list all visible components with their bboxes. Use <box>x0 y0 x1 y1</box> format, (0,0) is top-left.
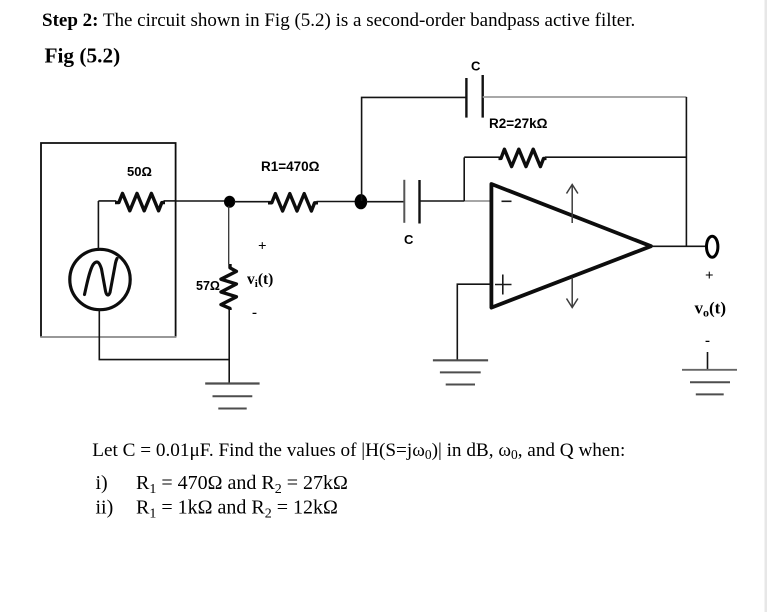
label minus input <box>502 200 512 202</box>
resistor R2 27kohm <box>464 156 500 158</box>
svg-text:R1 = 470Ω and R2 = 27kΩ: R1 = 470Ω and R2 = 27kΩ <box>136 472 348 497</box>
wire C2 to output node (gray) <box>483 96 687 98</box>
svg-text:R1=470Ω: R1=470Ω <box>261 159 320 174</box>
ground G2 <box>433 360 488 384</box>
svg-text:+: + <box>258 239 267 255</box>
wire source bottom return <box>99 310 229 360</box>
source box <box>41 143 176 337</box>
resistor 57ohm <box>221 264 236 310</box>
ground G1 <box>205 384 259 409</box>
wire feedback vertical to output <box>685 97 687 246</box>
node B <box>355 194 368 209</box>
capacitor C2 (feedback cap) <box>466 75 482 118</box>
wire source top to 50ohm <box>97 201 99 250</box>
wire node B to C1 <box>366 201 404 203</box>
wire vo to ground G3 <box>707 352 709 370</box>
svg-text:vi(t): vi(t) <box>247 271 273 290</box>
output terminal <box>707 236 718 257</box>
wire node A down to 57ohm <box>228 206 230 264</box>
wire box edge to node A <box>176 200 230 202</box>
svg-text:Step 2: The circuit shown in F: Step 2: The circuit shown in Fig (5.2) i… <box>42 10 635 31</box>
resistor R1 470ohm <box>268 194 318 211</box>
svg-text:57Ω: 57Ω <box>196 279 220 293</box>
power arrow down <box>567 278 578 308</box>
svg-text:ii): ii) <box>96 497 114 519</box>
svg-text:-: - <box>252 305 257 321</box>
svg-text:C: C <box>471 59 481 74</box>
svg-text:R1 = 1kΩ and R2 = 12kΩ: R1 = 1kΩ and R2 = 12kΩ <box>136 497 338 522</box>
svg-text:R2=27kΩ: R2=27kΩ <box>489 116 548 131</box>
wire output <box>651 245 707 247</box>
svg-text:C: C <box>404 232 414 247</box>
capacitor C1 (series input cap) <box>404 180 419 224</box>
svg-text:-: - <box>705 333 710 349</box>
resistor 50ohm <box>98 200 116 202</box>
wire noninverting input <box>457 284 491 360</box>
op-amp U1 <box>491 184 651 308</box>
power arrow up <box>567 185 578 224</box>
wire 57ohm to ground G1 <box>228 310 230 383</box>
wire node A to R1 <box>234 201 271 203</box>
wire C1 to inverting input <box>420 200 466 202</box>
svg-text:+: + <box>705 268 714 284</box>
ground G3 <box>682 370 737 395</box>
source VS <box>70 249 130 309</box>
svg-text:50Ω: 50Ω <box>127 164 152 179</box>
label plus input <box>495 275 512 295</box>
svg-text:vo(t): vo(t) <box>695 299 726 320</box>
svg-text:Let C = 0.01μF. Find the value: Let C = 0.01μF. Find the values of |H(S=… <box>92 440 625 462</box>
page edge <box>765 0 767 612</box>
svg-text:i): i) <box>96 472 108 494</box>
node A <box>224 196 235 208</box>
wire R2 down to inverting node <box>463 157 465 201</box>
svg-text:Fig (5.2): Fig (5.2) <box>45 44 121 68</box>
wire node B up and to C2 <box>362 97 467 201</box>
